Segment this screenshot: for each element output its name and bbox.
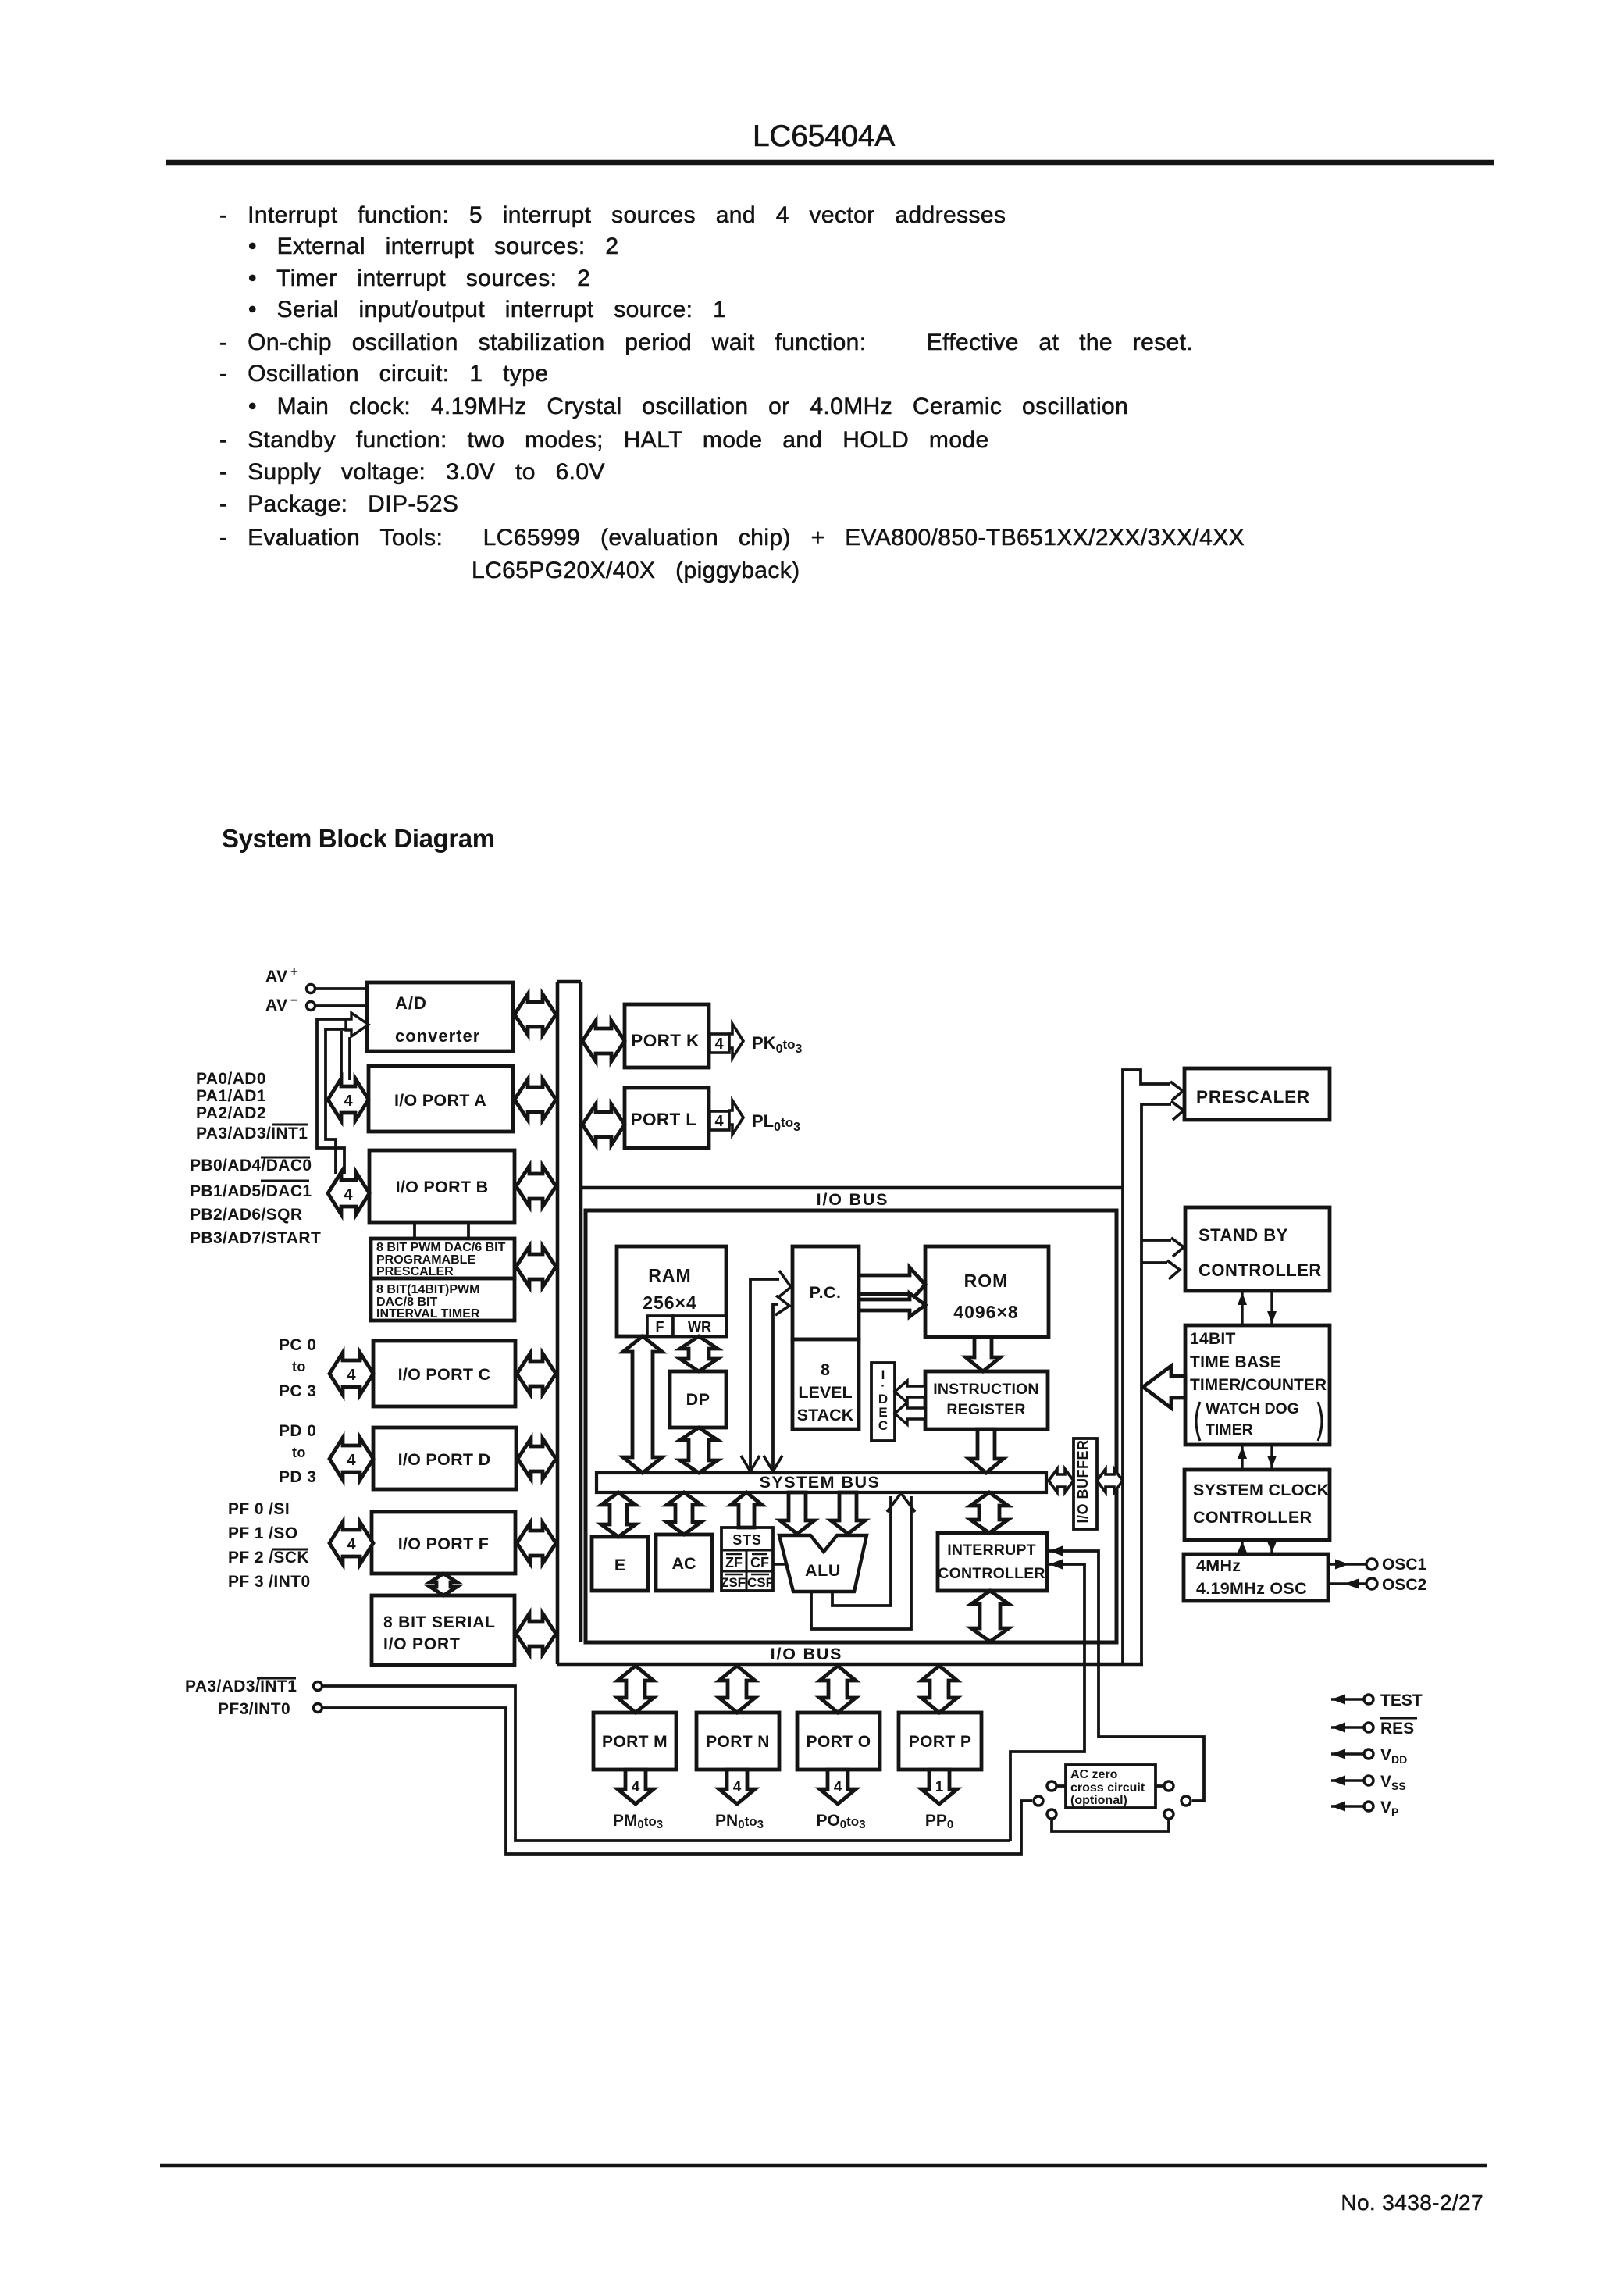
svg-text:I/O PORT B: I/O PORT B — [396, 1178, 489, 1196]
PORT K width 4 tag and arrow PK0to3 — [710, 1024, 803, 1058]
arrows 14BIT timer to system clock controller — [1238, 1445, 1277, 1470]
arrow A/D to bus — [515, 994, 556, 1035]
AC zero cross circuit block — [1066, 1765, 1156, 1808]
PWM DAC interval timer block — [371, 1278, 515, 1321]
svg-text:PB2/AD6/SQR: PB2/AD6/SQR — [190, 1206, 302, 1224]
PRESCALER block — [1184, 1068, 1330, 1120]
svg-text:4: 4 — [347, 1367, 356, 1384]
PORT N block — [696, 1713, 779, 1770]
svg-text:LC65404A: LC65404A — [753, 119, 895, 153]
svg-text:PB1/AD5/DAC1: PB1/AD5/DAC1 — [190, 1182, 312, 1200]
svg-text:PA3/AD3/INT1: PA3/AD3/INT1 — [196, 1125, 308, 1143]
svg-text:VSS: VSS — [1380, 1773, 1406, 1792]
arrow PORT P pin (1) — [921, 1770, 957, 1804]
arrow DP to system bus — [680, 1428, 718, 1473]
svg-text:PA0/AD0: PA0/AD0 — [196, 1070, 266, 1088]
arrow I/O buffer to right bus — [1097, 1469, 1123, 1492]
arrow interrupt controller to system bus — [970, 1492, 1008, 1533]
arrow instruction register to system bus — [969, 1429, 1003, 1473]
8 LEVEL STACK block — [792, 1339, 859, 1429]
wire AD to PA drop2 — [348, 1037, 351, 1080]
svg-text:- Supply voltage: 3.0V to 6.0V: - Supply voltage: 3.0V to 6.0V — [219, 459, 605, 485]
feature list text — [219, 202, 1245, 583]
svg-text:8: 8 — [821, 1360, 830, 1379]
pin TEST — [1331, 1692, 1423, 1709]
arrow P.C. to ROM lower — [859, 1293, 925, 1317]
svg-text:4.19MHz OSC: 4.19MHz OSC — [1196, 1579, 1307, 1598]
pin PF3/INT0 (bottom) — [218, 1700, 322, 1718]
svg-text:DP: DP — [686, 1390, 710, 1409]
arrow interrupt controller to lower I/O bus — [971, 1591, 1009, 1642]
top rule — [166, 160, 1494, 166]
svg-text:LEVEL: LEVEL — [798, 1383, 852, 1402]
AC zero terminal right-low — [1181, 1796, 1191, 1806]
arrow PORT C to bus — [517, 1353, 556, 1394]
svg-text:4: 4 — [344, 1186, 353, 1203]
AC zero terminal left-low — [1034, 1796, 1043, 1806]
wire PF3/INT0 route — [322, 1708, 1032, 1854]
arrow PORT B to bus — [516, 1166, 556, 1207]
svg-text:PK0to3: PK0to3 — [752, 1033, 803, 1056]
arrow system bus to I/O buffer — [1049, 1469, 1074, 1492]
wire B right (timer feed) — [1141, 1101, 1184, 1664]
arrow bus to ALU right input — [831, 1492, 865, 1534]
svg-text:- Standby function: two modes;: - Standby function: two modes; HALT mode… — [219, 427, 989, 453]
svg-text:PC 3: PC 3 — [279, 1382, 316, 1400]
SYSTEM BUS — [597, 1473, 1046, 1492]
arrow IR to I-DEC upper — [895, 1381, 925, 1403]
svg-text:WATCH DOG: WATCH DOG — [1206, 1400, 1299, 1417]
svg-text:WR: WR — [688, 1319, 711, 1335]
svg-text:- Package: DIP-52S: - Package: DIP-52S — [219, 491, 458, 517]
svg-text:CONTROLLER: CONTROLLER — [938, 1565, 1045, 1582]
svg-text:(optional): (optional) — [1070, 1794, 1127, 1807]
arrow PORT F to bus — [517, 1523, 556, 1563]
svg-text:I/O PORT: I/O PORT — [383, 1635, 461, 1653]
svg-text:4: 4 — [733, 1779, 742, 1795]
wire PA3/INT1 route — [322, 1686, 1010, 1841]
svg-text:4: 4 — [632, 1779, 640, 1795]
arrow AC to system bus — [667, 1492, 701, 1535]
I/O BUFFER block — [1074, 1438, 1097, 1529]
svg-text:- Oscillation circuit: 1 type: - Oscillation circuit: 1 type — [219, 361, 548, 387]
arrow PORT M pins (4) — [618, 1770, 654, 1804]
svg-text:AC: AC — [671, 1554, 696, 1573]
pin label PP0 — [925, 1812, 953, 1831]
INTERRUPT CONTROLLER block — [938, 1533, 1047, 1591]
svg-text:ZSF: ZSF — [721, 1575, 746, 1590]
arrow E to system bus — [601, 1492, 636, 1537]
svg-text:4MHz: 4MHz — [1196, 1556, 1241, 1575]
svg-text:AV: AV — [265, 968, 287, 986]
arrow PORT A to bus — [515, 1079, 556, 1120]
svg-text:TIME BASE: TIME BASE — [1190, 1353, 1281, 1371]
svg-text:PB0/AD4/DAC0: PB0/AD4/DAC0 — [190, 1157, 312, 1175]
arrow PA pins (4) — [328, 1078, 369, 1121]
svg-text:to: to — [292, 1359, 306, 1374]
svg-text:- On-chip oscillation stabiliz: - On-chip oscillation stabilization peri… — [219, 330, 1193, 355]
arrow PORT N pins (4) — [719, 1770, 755, 1804]
pins PA0-PA3 labels — [196, 1070, 308, 1143]
svg-text:to: to — [292, 1445, 306, 1460]
arrow PORT D to bus — [518, 1438, 556, 1479]
arrow into A/D from port pins — [346, 1013, 369, 1036]
svg-text:TIMER: TIMER — [1206, 1421, 1253, 1438]
wire AD to PA drop1 — [340, 1031, 343, 1080]
svg-text:4: 4 — [344, 1093, 353, 1110]
svg-text:PORT P: PORT P — [909, 1733, 972, 1751]
svg-text:4096×8: 4096×8 — [953, 1302, 1018, 1322]
title LC65404A — [753, 119, 895, 153]
wire STS to ALU — [773, 1563, 787, 1565]
svg-text:4: 4 — [347, 1536, 356, 1553]
page number — [1341, 2191, 1483, 2215]
svg-text:I/O PORT F: I/O PORT F — [398, 1535, 489, 1553]
svg-text:PD 0: PD 0 — [279, 1422, 316, 1440]
pin label PN0to3 — [715, 1812, 764, 1831]
svg-text:I/O PORT C: I/O PORT C — [398, 1365, 491, 1384]
svg-text:TEST: TEST — [1380, 1692, 1423, 1709]
svg-text:F: F — [656, 1319, 664, 1335]
svg-text:• Main clock: 4.19MHz Crystal: • Main clock: 4.19MHz Crystal oscillatio… — [248, 394, 1128, 419]
arrow P.C. to ROM upper — [859, 1267, 925, 1302]
arrow PWM to bus — [516, 1246, 556, 1287]
svg-text:I/O PORT A: I/O PORT A — [394, 1091, 486, 1110]
RAM WR box — [673, 1316, 726, 1336]
8 BIT SERIAL I/O PORT block — [372, 1595, 515, 1665]
svg-text:−: − — [290, 994, 297, 1007]
pins PC0-PC3 labels — [279, 1336, 316, 1400]
DP block — [670, 1371, 726, 1428]
wire AD loop outer — [317, 1019, 346, 1174]
svg-text:AV: AV — [265, 996, 287, 1014]
svg-text:STS: STS — [732, 1532, 761, 1548]
PWM DAC prescaler block — [371, 1239, 515, 1278]
PORT O block — [797, 1713, 880, 1770]
arrow lower bus to PORT O — [820, 1666, 856, 1713]
svg-text:• Serial input/output interrup: • Serial input/output interrupt source: … — [248, 297, 726, 323]
AC register block — [656, 1535, 712, 1591]
svg-text:OSC1: OSC1 — [1382, 1556, 1427, 1574]
wire A right bus (I/O bus to prescaler/buffer) — [1123, 1070, 1183, 1664]
svg-text:PN0to3: PN0to3 — [715, 1812, 764, 1831]
AC zero terminal left-mid — [1047, 1781, 1066, 1791]
pin AV+ — [265, 965, 367, 993]
svg-text:TIMER/COUNTER: TIMER/COUNTER — [1190, 1376, 1327, 1394]
arrow lower bus to PORT N — [719, 1666, 755, 1713]
svg-text:VDD: VDD — [1380, 1746, 1407, 1766]
wire lower I/O BUS — [557, 1645, 1143, 1664]
svg-text:PF 0 /SI: PF 0 /SI — [228, 1500, 290, 1518]
svg-text:I/O BUS: I/O BUS — [817, 1190, 889, 1209]
PORT L block — [625, 1088, 709, 1148]
STAND BY CONTROLLER block — [1185, 1207, 1330, 1291]
svg-text:PORT M: PORT M — [602, 1733, 668, 1751]
pins PF0-PF3 labels — [228, 1500, 311, 1591]
svg-text:P.C.: P.C. — [810, 1283, 842, 1302]
14BIT TIME BASE TIMER/COUNTER block — [1185, 1325, 1330, 1445]
svg-text:A/D: A/D — [395, 993, 427, 1013]
AC zero bottom loop wire — [1047, 1809, 1173, 1831]
arrow RAM to system bus — [623, 1336, 662, 1473]
PORT K block — [625, 1004, 709, 1068]
svg-text:SYSTEM CLOCK: SYSTEM CLOCK — [1193, 1481, 1330, 1499]
STS flags block — [721, 1528, 774, 1591]
heading System Block Diagram — [222, 824, 495, 853]
P.C. block — [792, 1246, 859, 1339]
arrows STAND BY to 14BIT timer — [1238, 1291, 1277, 1325]
svg-text:RAM: RAM — [648, 1265, 691, 1285]
svg-text:PO0to3: PO0to3 — [816, 1812, 865, 1831]
arrow 14BIT timer output to wire B — [1143, 1366, 1185, 1408]
PORT L width 4 tag and arrow PL0to3 — [710, 1100, 800, 1135]
I/O PORT F block — [372, 1512, 515, 1574]
wire system bus to P.C. — [741, 1271, 791, 1471]
svg-text:System Block Diagram: System Block Diagram — [222, 824, 495, 853]
svg-text:E: E — [614, 1556, 625, 1574]
svg-text:I/O BUFFER: I/O BUFFER — [1075, 1440, 1091, 1524]
svg-text:AC zero: AC zero — [1070, 1768, 1118, 1781]
arrow PC pins (4) — [329, 1353, 373, 1395]
INSTRUCTION REGISTER block — [925, 1371, 1048, 1429]
svg-text:PORT O: PORT O — [807, 1733, 871, 1751]
PORT P block — [899, 1713, 981, 1770]
svg-text:CONTROLLER: CONTROLLER — [1198, 1260, 1322, 1280]
wire ALU output to system bus — [811, 1493, 915, 1629]
svg-text:PF 3 /INT0: PF 3 /INT0 — [228, 1573, 311, 1591]
svg-text:ROM: ROM — [964, 1271, 1009, 1291]
arrow lower bus to PORT P — [921, 1666, 957, 1713]
AC zero terminal right-mid — [1156, 1781, 1173, 1791]
pin OSC1 — [1328, 1556, 1427, 1574]
RAM block — [617, 1246, 726, 1336]
4MHz OSC block — [1184, 1554, 1328, 1601]
svg-text:PP0: PP0 — [925, 1812, 953, 1831]
svg-text:8 BIT(14BIT)PWM: 8 BIT(14BIT)PWM — [376, 1283, 479, 1296]
svg-text:4: 4 — [347, 1452, 356, 1469]
svg-text:PF 1 /SO: PF 1 /SO — [228, 1524, 298, 1542]
arrow bus to PORT L — [582, 1104, 625, 1145]
RAM F flag box — [647, 1316, 673, 1336]
svg-text:CONTROLLER: CONTROLLER — [1193, 1508, 1312, 1527]
arrow STS to system bus — [731, 1492, 762, 1528]
arrow PF pins (4) — [329, 1522, 373, 1564]
wire main vertical I/O bus — [557, 982, 581, 1664]
svg-text:+: + — [290, 965, 297, 979]
wire AD loop inner — [326, 1029, 346, 1174]
I-DEC block — [871, 1363, 895, 1441]
svg-text:I/O BUS: I/O BUS — [771, 1645, 843, 1663]
svg-text:OSC2: OSC2 — [1382, 1576, 1426, 1594]
arrow wire B to standby lower — [1141, 1260, 1180, 1279]
svg-text:1: 1 — [935, 1779, 944, 1795]
svg-text:RES: RES — [1380, 1720, 1414, 1738]
arrow PD pins (4) — [329, 1438, 373, 1480]
arrow lower bus to PORT M — [618, 1666, 654, 1713]
pin label PM0to3 — [613, 1812, 663, 1831]
pin VDD — [1331, 1746, 1407, 1766]
arrow bus to PORT K — [582, 1021, 625, 1061]
svg-text:PF 2 /SCK: PF 2 /SCK — [228, 1549, 309, 1567]
pin VP — [1331, 1799, 1398, 1818]
svg-text:ALU: ALU — [805, 1561, 841, 1580]
pin VSS — [1331, 1773, 1406, 1792]
svg-text:VP: VP — [1380, 1799, 1398, 1818]
wire INT line lower (controller to PA3/INT1) — [1010, 1559, 1084, 1841]
svg-text:STAND BY: STAND BY — [1198, 1225, 1288, 1245]
svg-text:PRESCALER: PRESCALER — [376, 1265, 454, 1278]
svg-text:4: 4 — [714, 1036, 724, 1053]
E register block — [592, 1537, 648, 1591]
ALU block — [779, 1535, 867, 1592]
arrow PORT F to serial port — [430, 1574, 457, 1595]
svg-text:4: 4 — [834, 1779, 842, 1795]
wire PORT B to PWM stubs — [415, 1222, 468, 1239]
svg-text:PL0to3: PL0to3 — [752, 1111, 800, 1134]
pins PD0-PD3 labels — [279, 1422, 316, 1486]
svg-text:• External interrupt sources:: • External interrupt sources: 2 — [248, 234, 618, 259]
CPU core block outline — [586, 1210, 1116, 1642]
svg-text:PA2/AD2: PA2/AD2 — [196, 1104, 266, 1122]
svg-text:C: C — [878, 1418, 888, 1433]
svg-text:STACK: STACK — [797, 1406, 854, 1424]
arrow PB pins (4) — [328, 1172, 369, 1214]
svg-text:INTERRUPT: INTERRUPT — [947, 1542, 1035, 1559]
svg-text:PM0to3: PM0to3 — [613, 1812, 663, 1831]
svg-text:INSTRUCTION: INSTRUCTION — [933, 1381, 1038, 1398]
svg-text:converter: converter — [395, 1026, 480, 1046]
wire INT line upper (controller to AC zero) — [1049, 1545, 1204, 1801]
svg-text:SYSTEM BUS: SYSTEM BUS — [760, 1473, 881, 1492]
bottom rule — [160, 2164, 1487, 2168]
svg-text:I/O PORT D: I/O PORT D — [398, 1450, 491, 1469]
svg-text:PA1/AD1: PA1/AD1 — [196, 1087, 266, 1105]
svg-text:PB3/AD7/START: PB3/AD7/START — [190, 1229, 321, 1247]
arrow serial port to bus — [516, 1613, 556, 1654]
pin OSC2 — [1328, 1576, 1426, 1594]
pin RES — [1331, 1718, 1417, 1738]
svg-text:- Evaluation Tools: LC65999 (: - Evaluation Tools: LC65999 (evaluation … — [219, 525, 1245, 551]
arrow PORT O pins (4) — [820, 1770, 856, 1804]
svg-text:PD 3: PD 3 — [279, 1468, 316, 1486]
svg-text:4: 4 — [714, 1113, 724, 1130]
ROM block — [925, 1246, 1049, 1337]
arrow ROM to instruction register — [966, 1337, 1000, 1371]
svg-text:PORT N: PORT N — [706, 1733, 770, 1751]
arrow IR to I-DEC lower — [895, 1403, 925, 1424]
pin label PO0to3 — [816, 1812, 865, 1831]
pin AV- — [265, 994, 367, 1014]
svg-text:PRESCALER: PRESCALER — [1196, 1087, 1310, 1107]
SYSTEM CLOCK CONTROLLER block — [1184, 1470, 1330, 1540]
svg-text:• Timer interrupt sources: 2: • Timer interrupt sources: 2 — [248, 266, 590, 291]
pins PB0-PB3 labels — [190, 1157, 321, 1247]
PORT M block — [593, 1713, 676, 1770]
svg-text:No. 3438-2/27: No. 3438-2/27 — [1341, 2191, 1483, 2215]
svg-text:- Interrupt function: 5 interr: - Interrupt function: 5 interrupt source… — [219, 202, 1006, 228]
svg-text:PC 0: PC 0 — [279, 1336, 316, 1354]
wire top I/O BUS — [581, 1188, 1123, 1209]
I/O PORT A block — [369, 1066, 513, 1132]
A/D converter block — [367, 982, 513, 1051]
svg-text:PORT K: PORT K — [631, 1031, 700, 1050]
I/O PORT C block — [373, 1341, 515, 1406]
svg-text:LC65PG20X/40X (piggyback): LC65PG20X/40X (piggyback) — [472, 558, 800, 583]
svg-text:ZF: ZF — [725, 1555, 743, 1570]
svg-text:256×4: 256×4 — [643, 1292, 697, 1313]
arrow wire B to standby upper — [1141, 1238, 1184, 1257]
I/O PORT B block — [369, 1150, 515, 1222]
svg-text:8 BIT SERIAL: 8 BIT SERIAL — [383, 1613, 496, 1631]
arrow WR to DP — [680, 1336, 718, 1371]
svg-text:INTERVAL TIMER: INTERVAL TIMER — [376, 1307, 480, 1321]
I/O PORT D block — [373, 1428, 516, 1489]
svg-text:cross circuit: cross circuit — [1070, 1781, 1145, 1795]
pin PA3/AD3/INT1 (bottom) — [185, 1677, 322, 1695]
arrows system clock controller to 4MHz OSC — [1238, 1540, 1277, 1554]
svg-text:PORT L: PORT L — [631, 1110, 697, 1129]
svg-text:REGISTER: REGISTER — [946, 1401, 1025, 1418]
svg-text:CF: CF — [750, 1555, 769, 1570]
svg-text:14BIT: 14BIT — [1190, 1330, 1236, 1348]
svg-text:PA3/AD3/INT1: PA3/AD3/INT1 — [185, 1677, 297, 1695]
svg-text:CSF: CSF — [747, 1575, 774, 1590]
svg-text:PF3/INT0: PF3/INT0 — [218, 1700, 290, 1718]
svg-text:8 BIT PWM DAC/6 BIT: 8 BIT PWM DAC/6 BIT — [376, 1241, 506, 1254]
arrow bus to ALU left input — [780, 1492, 814, 1534]
